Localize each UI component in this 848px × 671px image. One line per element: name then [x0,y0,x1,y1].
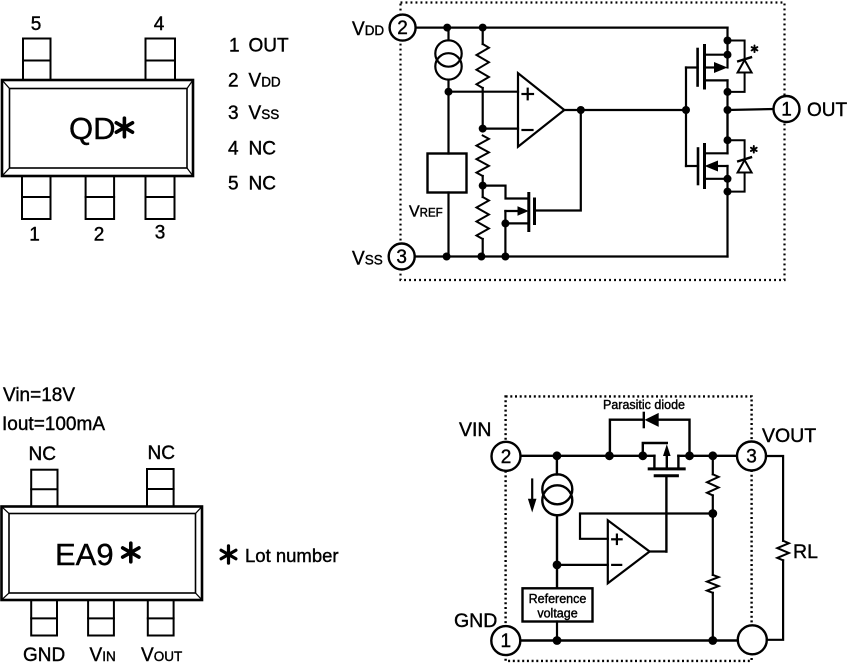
transistor Q3 (NMOS output low-side) [698,145,728,188]
svg-text:OUT: OUT [249,36,290,57]
pin 5 lead [23,39,51,81]
wire GND rail [520,639,738,641]
svg-text:EA9: EA9 [55,537,114,572]
diode D1 (Q2 parasitic) [728,41,752,92]
pin VIN lead [88,600,114,636]
wire VDD rail [416,27,728,29]
junction VOUT/divider [708,451,717,460]
junction Q4 drain/D3 [685,451,694,460]
diode D3 (parasitic, across pass FET) [610,413,690,456]
svg-text:VIN: VIN [90,645,116,666]
marking QD* [69,111,133,146]
svg-text:1: 1 [501,631,512,652]
svg-text:1: 1 [781,100,792,121]
svg-text:5: 5 [31,14,42,35]
svg-text:OUT: OUT [807,100,848,121]
transistor Q1 (NMOS, feedback switch) [483,186,535,257]
wire I1 to op-amp + input (node A) [449,91,519,93]
wire VDD drop to Q2 [726,28,728,68]
svg-text:1: 1 [29,225,40,246]
pin 1 terminal GND [491,626,520,655]
wire node A to VREF box [447,92,449,154]
junction VDD/R1 [479,24,487,32]
svg-text:3: 3 [155,223,166,244]
junction VREF/VSS [443,253,451,261]
wire node B to op-amp - input [483,128,518,130]
junction R1/R2 (node B, inverting input) [479,125,487,133]
pin 4 lead [146,39,176,81]
svg-text:3: 3 [396,247,407,268]
resistor R3 [477,186,489,257]
svg-text:Iout=100mA: Iout=100mA [2,414,105,435]
package U2 body (SOT-25 top view) [2,507,203,601]
wire Q2 drain to OUT [726,80,728,140]
svg-text:2: 2 [501,447,512,468]
junction node A [445,88,453,96]
wire OUT to Q3 drain [726,110,728,153]
junction - input/reference [553,561,562,570]
junction R2/R3 (node C) [479,182,487,190]
current source I1 [435,28,461,92]
svg-text:VOUT: VOUT [141,645,182,666]
wire feedback (divider tap to + input) [580,514,713,539]
svg-text:Lot number: Lot number [245,545,339,566]
svg-text:NC: NC [148,443,175,464]
wire op-amp output to gate node [564,109,686,111]
asterisk mark D1 [752,46,758,53]
reference voltage block [523,588,593,621]
svg-text:3: 3 [228,103,239,124]
junction D2 top [724,136,732,144]
asterisk mark D2 [751,146,757,153]
junction R3/VSS [477,253,485,261]
IC internal boundary (dashed) bottom [506,396,752,661]
junction VIN/I2 [553,451,562,460]
op-amp U3 (error amplifier) [608,520,650,583]
svg-text:Vin=18V: Vin=18V [3,385,75,406]
wire op-amp output to Q4 gate [650,550,667,552]
svg-text:VIN: VIN [459,419,492,441]
wire VIN rail [521,455,738,457]
pin 3 terminal VOUT [737,442,766,471]
pin 2 terminal VIN [492,442,521,471]
svg-text:Reference: Reference [529,592,587,606]
junction Q1 source/body [501,219,509,227]
svg-text:NC: NC [249,174,276,195]
svg-text:VDD: VDD [249,71,281,92]
junction Q1/VSS [501,253,509,261]
pin 2 terminal VDD [390,15,416,41]
junction Q2/D1 top [724,37,732,45]
pin 2 lead [86,176,115,219]
svg-text:NC: NC [29,444,56,465]
pin 1 lead [22,176,51,219]
svg-text:voltage: voltage [537,607,577,621]
svg-text:4: 4 [154,14,165,35]
package U1 body (SOT-25 top view) [2,80,193,176]
svg-text:VSS: VSS [352,249,383,270]
svg-text:VREF: VREF [409,204,443,221]
pin NC lead (left) [31,470,57,507]
resistor R1 [477,28,489,129]
junction reference/GND [553,636,562,645]
wire reference to GND rail [556,622,558,641]
junction op-amp output / Q1 gate branch [577,106,585,114]
current source I2 [542,456,572,589]
svg-text:2: 2 [228,71,239,92]
svg-text:VOUT: VOUT [762,425,816,447]
junction VIN/D3 left [605,451,614,460]
svg-text:2: 2 [94,225,105,246]
svg-text:Parasitic diode: Parasitic diode [603,398,685,412]
wire gate bus [686,68,698,167]
diode D2 (Q3 parasitic) [728,140,752,191]
pin NC lead (right) [147,469,174,507]
current direction arrow [531,480,533,501]
resistor R2 [477,136,489,186]
svg-text:2: 2 [397,18,408,39]
junction D1 bottom [724,88,732,96]
junction VDD/I1 [443,24,451,32]
svg-text:3: 3 [746,447,757,468]
svg-text:VDD: VDD [352,19,384,40]
wire Q1 gate branch [535,110,581,211]
svg-text:RL: RL [793,541,818,563]
junction D2 bottom [724,188,732,196]
transistor Q2 (PMOS output high-side) [698,46,728,89]
wire OUT [728,109,774,110]
svg-text:VSS: VSS [249,103,280,124]
junction Q4 source/body [638,451,647,460]
junction Q3 source/body [724,175,732,183]
svg-text:5: 5 [228,174,239,195]
pin 3 terminal VSS [389,244,415,270]
svg-text:4: 4 [228,139,239,160]
terminal (unnumbered, GND side of load) [738,625,767,654]
resistor R4 (divider top) [707,456,719,514]
svg-text:QD: QD [69,111,116,146]
resistor R5 (divider bottom) [707,514,719,641]
junction divider/GND [708,636,717,645]
note: * Lot number [221,545,338,566]
pin GND lead [31,600,57,636]
op-amp U2 (error amplifier) [518,73,564,147]
junction divider tap [708,509,717,518]
junction Q2 source/body [724,51,732,59]
svg-text:GND: GND [23,645,65,666]
marking EA9* [55,537,139,572]
wire VREF to VSS rail [447,193,449,257]
svg-text:NC: NC [249,139,276,160]
wire Q3 source/body to VSS [726,166,728,257]
junction OUT node [724,106,732,114]
pin 3 lead [146,176,175,219]
wire VSS rail [415,255,728,257]
svg-text:GND: GND [454,610,497,632]
load resistor RL [766,456,789,640]
svg-text:1: 1 [229,36,240,57]
wire - input to reference node [557,564,608,566]
junction gate node (Q2/Q3 gates) [682,106,690,114]
pin VOUT lead [148,600,174,636]
pin 1 terminal OUT [774,96,800,122]
voltage reference block VREF [428,154,467,193]
transistor Q4 (PMOS pass) [643,443,684,552]
IC internal boundary (dashed) [401,3,785,281]
